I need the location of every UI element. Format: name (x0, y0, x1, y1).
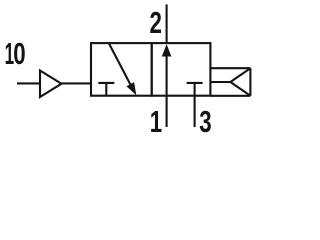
right square flow path 1 to 2 (vertical arrow up) (166, 55, 168, 96)
valve body left square (actuated position) (91, 43, 152, 96)
right square blocked port 3 (T symbol) (187, 82, 203, 84)
spring return middle stem (210, 81, 230, 83)
spring return box top rail (210, 67, 250, 69)
spring return box bottom rail (210, 95, 250, 97)
svg-text:1: 1 (150, 104, 162, 135)
left square blocked port 1 (T symbol) (98, 82, 114, 84)
spring return triangle upper diagonal (230, 68, 250, 82)
spring return triangle lower diagonal (230, 82, 250, 96)
spring return box right edge (249, 68, 251, 96)
arrowhead of vertical flow path (points up to port 2) (162, 44, 172, 56)
valve body right square (rest position) (152, 43, 211, 96)
wire pilot to valve body (62, 82, 92, 84)
pilot actuator triangle Z10 (40, 71, 62, 98)
port 1 connection stub (166, 96, 168, 127)
svg-text:0: 0 (13, 36, 25, 70)
arrowhead of diagonal flow path (points down-right to port 3) (127, 82, 137, 95)
wire pilot input 10 (17, 82, 40, 84)
svg-text:2: 2 (150, 5, 162, 39)
left square flow path 2 to 3 (diagonal arrow) (109, 43, 134, 90)
port 2 connection stub (166, 4, 168, 43)
port 3 connection stub (194, 96, 196, 127)
svg-text:3: 3 (199, 104, 211, 135)
